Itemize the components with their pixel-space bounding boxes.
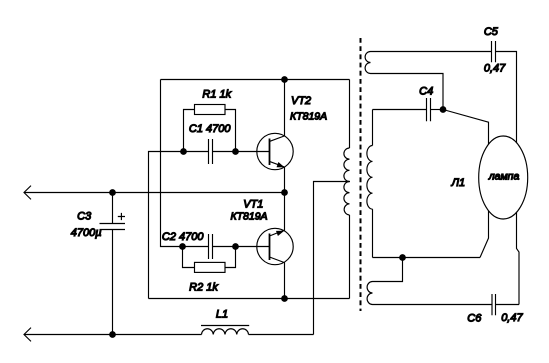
resistor R1	[184, 105, 236, 152]
capacitor C1	[209, 139, 213, 164]
svg-text:C4: C4	[419, 85, 433, 97]
junction C1 right	[233, 149, 239, 155]
svg-text:C5: C5	[484, 26, 499, 38]
svg-text:КТ819А: КТ819А	[290, 110, 327, 122]
capacitor C5	[492, 41, 496, 62]
input terminal arrow top	[24, 186, 31, 200]
wire cross coupling A to C1	[149, 152, 209, 299]
wire lamp bottom row	[373, 257, 481, 259]
junction C4	[440, 107, 446, 113]
capacitor C2	[209, 234, 213, 259]
wire VT1 base lead	[213, 246, 270, 248]
junction C2 right	[233, 244, 239, 250]
transistor VT2	[257, 80, 293, 193]
svg-text:C2 4700: C2 4700	[162, 231, 204, 243]
svg-text:C1 4700: C1 4700	[189, 123, 231, 135]
wire minus bus right	[249, 334, 314, 336]
svg-text:0,47: 0,47	[501, 312, 523, 324]
lamp EL1	[479, 136, 528, 219]
junction C3 bottom	[110, 332, 116, 338]
svg-text:C3: C3	[77, 211, 92, 223]
wire plus input bus	[24, 192, 285, 194]
wire bottom bus VT1 collector	[149, 298, 350, 300]
transformer T1 secondary winding b	[367, 110, 373, 258]
capacitor C4	[373, 98, 444, 121]
svg-text:лампа: лампа	[488, 171, 520, 183]
wire C6 to right edge	[496, 304, 520, 306]
svg-text:R2 1k: R2 1k	[189, 282, 218, 294]
wire cross coupling B to C2	[161, 80, 209, 247]
junction C2 left	[180, 244, 186, 250]
transformer T1 secondary winding c	[367, 258, 492, 305]
svg-text:C6: C6	[467, 313, 482, 325]
transformer T1 core	[360, 38, 362, 311]
svg-text:4700µ: 4700µ	[71, 227, 102, 239]
junction C1 left	[181, 149, 187, 155]
junction lamp bottom row	[400, 255, 406, 261]
wire minus input bus	[24, 334, 202, 336]
junction top bus	[282, 77, 288, 83]
junction bottom bus	[282, 296, 288, 302]
capacitor C6	[492, 294, 496, 315]
wire lamp top lead	[443, 110, 489, 258]
junction C3 top	[110, 190, 116, 196]
transistor VT1	[257, 193, 293, 299]
node midpoint emitters	[282, 190, 288, 196]
wire right edge	[496, 52, 520, 305]
inductor L1	[201, 326, 249, 335]
wire top bus VT2 collector	[161, 79, 350, 81]
svg-text:Л1: Л1	[450, 177, 465, 189]
wire center tap riser	[314, 182, 351, 335]
wire VT2 base lead	[213, 151, 270, 153]
input terminal arrow bottom	[24, 328, 31, 342]
transformer T1 primary winding	[344, 80, 350, 299]
svg-text:КТ819А: КТ819А	[230, 210, 267, 222]
svg-text:VT2: VT2	[291, 95, 311, 107]
svg-text:VT1: VT1	[243, 199, 263, 211]
svg-text:L1: L1	[216, 309, 228, 321]
capacitor C3	[100, 193, 126, 335]
resistor R2	[183, 247, 236, 273]
transformer T1 secondary winding a	[365, 52, 491, 110]
svg-text:R1 1k: R1 1k	[202, 89, 231, 101]
svg-text:0,47: 0,47	[484, 63, 506, 75]
